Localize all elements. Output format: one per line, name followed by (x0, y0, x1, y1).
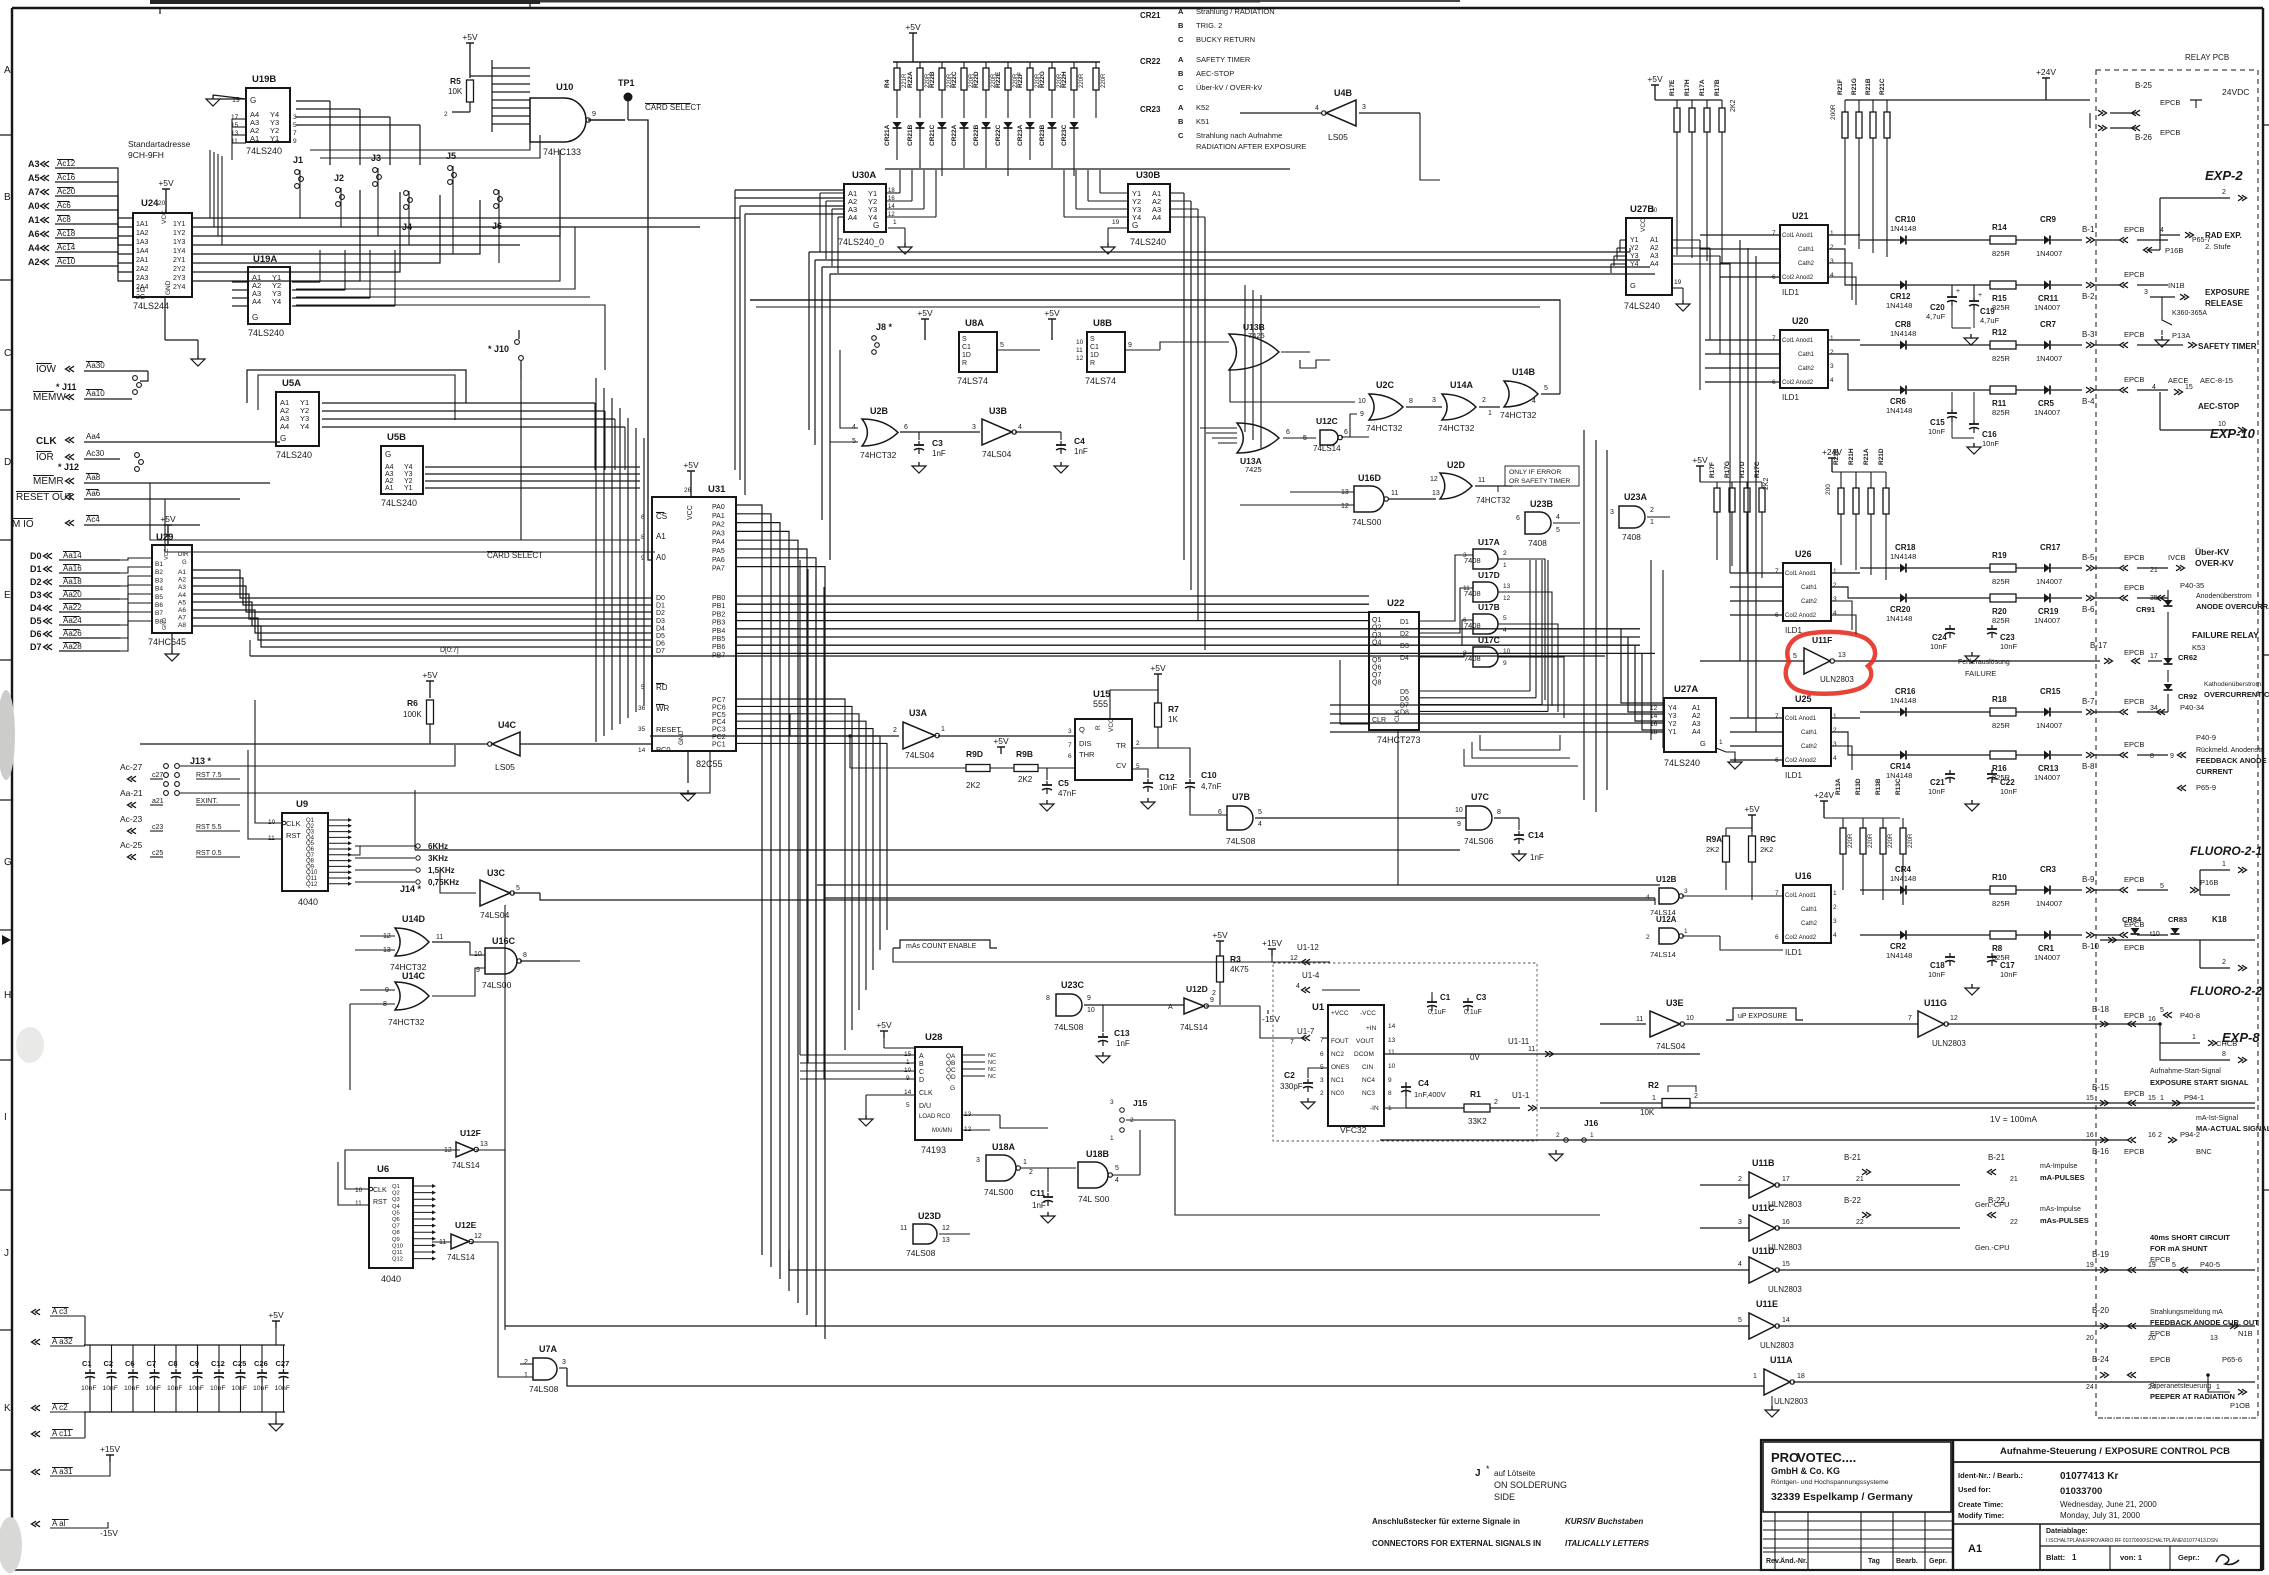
svg-text:+5V: +5V (462, 32, 478, 42)
svg-text:VOTEC....: VOTEC.... (1797, 1450, 1856, 1465)
svg-text:R15: R15 (1992, 294, 2007, 303)
LED CR23A (1026, 122, 1035, 128)
IC U30A 74LS240 (844, 184, 886, 232)
svg-text:B-22: B-22 (1844, 1196, 1861, 1205)
svg-text:U12A: U12A (1656, 915, 1677, 924)
wire U9 outputs (328, 819, 348, 821)
svg-text:4,7nF: 4,7nF (1201, 782, 1222, 791)
inverter U11D ULN2803 (1749, 1257, 1775, 1283)
svg-text:R7: R7 (1168, 704, 1179, 714)
wire U22 D outputs to U17 gates (1419, 555, 1473, 621)
capacitor C18 10nF (1949, 953, 1951, 957)
sheet border frame (12, 7, 2263, 9)
svg-text:K53: K53 (2192, 643, 2205, 652)
svg-text:10nF: 10nF (1930, 642, 1948, 651)
wire U14 inputs (360, 935, 395, 937)
NAND U18B 74LS00 (1078, 1162, 1108, 1188)
svg-text:2: 2 (1503, 550, 1507, 557)
svg-text:4: 4 (1738, 1261, 1742, 1268)
NAND U12B 74LS14 (1659, 888, 1679, 904)
svg-text:1nF,400V: 1nF,400V (1414, 1090, 1446, 1099)
svg-text:74LS14: 74LS14 (1180, 1023, 1208, 1032)
svg-text:2Y1: 2Y1 (173, 257, 186, 264)
svg-text:Y1: Y1 (1668, 729, 1677, 736)
svg-text:AEC-STOP: AEC-STOP (2198, 402, 2240, 411)
svg-text:2: 2 (1694, 1093, 1698, 1100)
wire U27B outputs drop to U21 (1699, 240, 1701, 390)
svg-text:ILD1: ILD1 (1782, 393, 1799, 402)
svg-text:G: G (280, 434, 286, 443)
IC U28 74193 (915, 1047, 962, 1140)
svg-text:VCC: VCC (1108, 718, 1115, 732)
capacitor C12 10nF (1132, 769, 1148, 778)
svg-text:P94-1: P94-1 (2184, 1093, 2204, 1102)
wire U5 loop top (247, 370, 466, 403)
diode CR2 1N4148 (1860, 934, 1900, 936)
svg-text:EXP-2: EXP-2 (2205, 168, 2243, 183)
svg-text:G: G (385, 450, 391, 459)
svg-text:B2: B2 (155, 569, 163, 576)
svg-text:+5V: +5V (993, 736, 1009, 746)
svg-text:Ac8: Ac8 (57, 215, 71, 224)
svg-text:2: 2 (1029, 1169, 1033, 1176)
svg-text:10nF: 10nF (124, 1385, 140, 1392)
ground below U29 (171, 650, 173, 654)
svg-text:3: 3 (1362, 104, 1366, 111)
svg-text:+15V: +15V (1262, 938, 1282, 948)
svg-text:C: C (919, 1069, 924, 1076)
svg-text:4: 4 (1646, 894, 1650, 901)
svg-text:1: 1 (1833, 568, 1837, 575)
AND U23D 74LS08 (913, 1224, 937, 1244)
diode CR7 1N4007 (2044, 341, 2050, 350)
svg-text:LS05: LS05 (495, 762, 515, 772)
svg-text:P16B: P16B (2200, 878, 2218, 887)
resistor R20 825R (1990, 594, 2016, 602)
LED CR23C (1070, 122, 1079, 128)
IC U19B 74LS240 (246, 88, 290, 142)
resistor R9D 2K2 (849, 736, 851, 768)
resistor R13D (1862, 818, 1864, 828)
svg-text:A: A (1178, 55, 1184, 64)
svg-text:Cath1: Cath1 (1801, 585, 1818, 591)
svg-text:B-15: B-15 (2092, 1083, 2109, 1092)
svg-text:EPCB: EPCB (2150, 1355, 2170, 1364)
LED CR23B (1048, 122, 1057, 128)
svg-text:74LS08: 74LS08 (1226, 836, 1256, 846)
svg-text:A7: A7 (178, 615, 186, 622)
svg-text:A: A (4, 65, 11, 76)
svg-text:3: 3 (1833, 596, 1837, 603)
svg-text:TP1: TP1 (618, 78, 635, 88)
capacitor C6 10nF (132, 1345, 134, 1368)
svg-text:Aa20: Aa20 (63, 590, 82, 599)
svg-text:1: 1 (1833, 890, 1837, 897)
svg-text:R9D: R9D (966, 749, 983, 759)
svg-text:Y4: Y4 (1630, 261, 1639, 268)
svg-text:D5: D5 (30, 616, 42, 626)
svg-text:6: 6 (904, 424, 908, 431)
diode CR1 1N4007 (2044, 931, 2050, 940)
svg-text:Aa30: Aa30 (86, 361, 105, 370)
svg-text:EXP-10: EXP-10 (2210, 426, 2256, 441)
resistor R17H (1691, 100, 1693, 108)
svg-text:EPCB: EPCB (2124, 553, 2144, 562)
svg-text:KURSIV Buchstaben: KURSIV Buchstaben (1565, 1517, 1643, 1526)
capacitor C16 10nF (1973, 420, 1975, 424)
svg-text:82C55: 82C55 (696, 759, 723, 769)
svg-text:U28: U28 (925, 1032, 942, 1043)
wire opto U21 inputs (1700, 234, 1780, 236)
svg-text:+VCC: +VCC (1331, 1010, 1349, 1017)
svg-text:A2: A2 (178, 577, 186, 584)
svg-text:RST: RST (286, 831, 301, 840)
svg-text:16: 16 (888, 196, 895, 202)
svg-text:I: I (4, 1112, 7, 1123)
svg-text:2: 2 (1650, 507, 1654, 514)
OR4 gate U13A 7425 (1237, 423, 1279, 453)
svg-text:U23B: U23B (1530, 499, 1554, 509)
svg-text:PC5: PC5 (712, 712, 726, 719)
svg-text:C7: C7 (147, 1359, 157, 1368)
svg-text:C4: C4 (1074, 436, 1085, 446)
svg-text:Q7: Q7 (1372, 672, 1381, 679)
svg-text:U31: U31 (708, 484, 726, 495)
svg-text:+: + (1956, 288, 1960, 295)
svg-text:Q3: Q3 (392, 1197, 400, 1203)
wire EXP-2 arrow (2160, 197, 2230, 199)
svg-text:6: 6 (1516, 515, 1520, 522)
svg-text:1N4148: 1N4148 (1886, 951, 1912, 960)
NAND gate U10 74HC133 (530, 98, 586, 142)
inverter U12D 74LS14 (1184, 998, 1204, 1014)
svg-text:1: 1 (1652, 1095, 1656, 1102)
svg-text:Q1: Q1 (392, 1184, 400, 1190)
IC U22 74HCT273 (1369, 612, 1419, 730)
svg-text:10: 10 (1076, 339, 1084, 346)
svg-text:1N4148: 1N4148 (1890, 224, 1916, 233)
LED CR22B (982, 122, 991, 128)
svg-text:1A2: 1A2 (136, 230, 149, 237)
svg-text:1nF: 1nF (1074, 447, 1088, 456)
svg-text:EPCB: EPCB (2124, 225, 2144, 234)
svg-text:74LS14: 74LS14 (452, 1161, 480, 1170)
svg-text:7: 7 (1290, 1039, 1294, 1046)
scan smudge left (0, 690, 15, 780)
svg-text:G: G (4, 857, 12, 868)
svg-text:Aufnahme-Start-Signal: Aufnahme-Start-Signal (2150, 1068, 2221, 1075)
inverter U11B ULN2803 (1749, 1172, 1775, 1198)
diode CR83 (2171, 928, 2180, 934)
wire U28 feed verticals (799, 560, 801, 1055)
svg-text:A4: A4 (252, 297, 261, 306)
svg-text:4,7uF: 4,7uF (1980, 316, 2000, 325)
svg-text:G: G (1630, 281, 1636, 290)
svg-text:74HCT32: 74HCT32 (860, 450, 897, 460)
svg-text:C24: C24 (1932, 633, 1947, 642)
svg-text:J15: J15 (1133, 1098, 1147, 1108)
svg-text:U11F: U11F (1812, 635, 1832, 645)
svg-text:CR1: CR1 (2038, 944, 2055, 953)
svg-text:PA3: PA3 (712, 530, 725, 537)
svg-text:Q4: Q4 (392, 1204, 401, 1210)
svg-text:10nF: 10nF (167, 1385, 183, 1392)
svg-text:PC3: PC3 (712, 727, 726, 734)
svg-text:FAILURE: FAILURE (1965, 669, 1996, 678)
svg-text:C3: C3 (932, 438, 943, 448)
svg-text:9: 9 (1360, 411, 1364, 418)
svg-text:PB0: PB0 (712, 595, 725, 602)
title block revision grid (1763, 1511, 1953, 1513)
svg-text:4: 4 (1503, 627, 1507, 634)
svg-text:4: 4 (2160, 227, 2164, 234)
svg-text:Cath2: Cath2 (1801, 921, 1818, 927)
svg-text:A4: A4 (1692, 729, 1701, 736)
svg-text:ULN2803: ULN2803 (1932, 1039, 1966, 1048)
diode CR5 1N4007 (2044, 386, 2050, 395)
svg-text:1A3: 1A3 (136, 239, 149, 246)
svg-text:C: C (1178, 131, 1184, 140)
svg-text:* J11: * J11 (56, 382, 77, 392)
inverter U3E 74LS04 (1650, 1011, 1680, 1037)
svg-text:A4: A4 (28, 243, 40, 253)
wire U27B outputs to right (1672, 239, 1700, 241)
svg-text:FOR mA SHUNT: FOR mA SHUNT (2150, 1244, 2208, 1253)
svg-text:R: R (962, 360, 967, 367)
svg-text:N1B: N1B (2238, 1329, 2253, 1338)
resistor R22E 220R (1007, 62, 1009, 68)
svg-text:1Y2: 1Y2 (173, 230, 186, 237)
svg-text:CARD SELECT: CARD SELECT (487, 551, 543, 560)
resistor R17F (1716, 482, 1718, 488)
svg-text:R2: R2 (1648, 1080, 1659, 1090)
svg-text:U2C: U2C (1376, 380, 1395, 390)
svg-text:B: B (1178, 117, 1184, 126)
svg-text:A: A (919, 1053, 924, 1060)
wire A-bus U24 left (110, 168, 133, 218)
svg-text:20: 20 (2086, 1335, 2094, 1342)
svg-text:Y1: Y1 (1630, 237, 1639, 244)
svg-text:U2B: U2B (870, 406, 889, 416)
svg-text:24: 24 (2086, 1384, 2094, 1391)
svg-text:D2: D2 (1400, 631, 1409, 638)
svg-text:EXPOSURE: EXPOSURE (2205, 288, 2250, 297)
svg-text:1: 1 (1830, 230, 1834, 237)
svg-text:10nF: 10nF (2000, 787, 2018, 796)
svg-text:U26: U26 (1795, 549, 1812, 559)
svg-text:9: 9 (1087, 995, 1091, 1002)
svg-text:74LS14: 74LS14 (1313, 444, 1341, 453)
svg-text:R8: R8 (1992, 944, 2003, 953)
svg-text:PA6: PA6 (712, 557, 725, 564)
svg-text:10: 10 (1388, 1063, 1396, 1070)
svg-text:7: 7 (1908, 1015, 1912, 1022)
resistor R10 825R (1990, 886, 2016, 894)
svg-text:R22D: R22D (973, 71, 980, 88)
inverter U3C 74LS04 (480, 880, 510, 906)
svg-text:R9B: R9B (1016, 749, 1033, 759)
svg-text:10nF: 10nF (1928, 970, 1946, 979)
optocoupler U16 ILD1 (1783, 885, 1831, 943)
IC U27A 74LS240 (1664, 698, 1716, 752)
svg-text:2: 2 (1830, 244, 1834, 251)
svg-text:0,1uF: 0,1uF (1428, 1009, 1446, 1016)
svg-text:U16C: U16C (492, 936, 516, 946)
resistor R9A 2K2 (1723, 836, 1730, 862)
svg-text:C12: C12 (211, 1359, 225, 1368)
svg-text:mA-Impulse: mA-Impulse (2040, 1163, 2077, 1170)
svg-text:PC1: PC1 (712, 741, 726, 748)
svg-text:CR91: CR91 (2136, 605, 2155, 614)
svg-text:CR22: CR22 (1140, 57, 1161, 66)
resistor R14 825R (1990, 236, 2016, 244)
svg-text:2Y4: 2Y4 (173, 284, 186, 291)
svg-text:74LS244: 74LS244 (133, 301, 169, 311)
svg-text:2K2: 2K2 (1730, 99, 1737, 112)
svg-text:DIR: DIR (178, 552, 189, 558)
diode CR14 1N4148 (1860, 754, 1900, 756)
svg-text:1,5KHz: 1,5KHz (428, 866, 455, 875)
svg-text:PA2: PA2 (712, 522, 725, 529)
svg-text:U14B: U14B (1512, 367, 1536, 377)
svg-text:B-4: B-4 (2082, 397, 2095, 406)
diode CR13 1N4007 (2044, 751, 2050, 760)
svg-text:D2: D2 (656, 610, 665, 617)
svg-text:Y4: Y4 (404, 464, 413, 471)
ground at U27B (1682, 300, 1684, 304)
resistor R17A (1706, 100, 1708, 108)
svg-text:Y3: Y3 (1668, 713, 1677, 720)
svg-text:10: 10 (355, 1187, 363, 1194)
svg-text:2K2: 2K2 (966, 781, 981, 790)
wire long mid horizontals (415, 849, 1460, 851)
svg-text:74LS240: 74LS240 (248, 328, 284, 338)
svg-text:+24V: +24V (1814, 790, 1834, 800)
svg-text:NC: NC (988, 1074, 996, 1080)
svg-text:C2: C2 (104, 1359, 114, 1368)
svg-text:15: 15 (2148, 1095, 2156, 1102)
svg-text:Col1 Anod1: Col1 Anod1 (1782, 233, 1814, 239)
inverter U11E ULN2803 (1749, 1313, 1775, 1339)
svg-text:1K: 1K (1168, 715, 1178, 724)
svg-text:P16B: P16B (2165, 246, 2183, 255)
svg-text:D1: D1 (656, 603, 665, 610)
callout ONLY IF ERROR OR SAFETY TIMER (1505, 466, 1579, 486)
svg-text:MEMR: MEMR (33, 476, 64, 487)
svg-text:R22A: R22A (907, 71, 914, 88)
svg-text:U30B: U30B (1136, 170, 1160, 181)
svg-text:Ac30: Ac30 (86, 449, 105, 458)
svg-text:PA4: PA4 (712, 539, 725, 546)
svg-text:K51: K51 (1196, 117, 1209, 126)
svg-text:R17A: R17A (1699, 79, 1706, 96)
svg-text:R21H: R21H (1848, 448, 1855, 465)
svg-text:NC: NC (988, 1060, 996, 1066)
svg-text:6: 6 (1068, 753, 1072, 760)
svg-text:U25: U25 (1795, 694, 1812, 704)
svg-text:74HCT32: 74HCT32 (1366, 423, 1403, 433)
svg-text:74HCT32: 74HCT32 (388, 1017, 425, 1027)
svg-text:8: 8 (1409, 398, 1413, 405)
LED CR21B (916, 122, 925, 128)
svg-text:825R: 825R (1992, 577, 2011, 586)
svg-text:12: 12 (1290, 955, 1298, 962)
svg-text:10K: 10K (1640, 1108, 1655, 1117)
NAND U12A 74LS14 (1659, 928, 1679, 944)
svg-text:U23A: U23A (1624, 492, 1648, 502)
svg-text:8: 8 (2222, 1051, 2226, 1058)
AND U23C 74LS08 (1056, 994, 1082, 1016)
svg-text:4040: 4040 (298, 897, 318, 907)
svg-text:33K2: 33K2 (1468, 1117, 1487, 1126)
svg-text:mAs COUNT ENABLE: mAs COUNT ENABLE (906, 943, 977, 950)
svg-text:CR21C: CR21C (929, 124, 936, 146)
svg-text:G: G (1700, 739, 1706, 748)
svg-text:CR4: CR4 (1895, 865, 1912, 874)
IC U5A 74LS240 (276, 392, 319, 446)
svg-text:Aa16: Aa16 (63, 564, 82, 573)
svg-text:Ac20: Ac20 (57, 187, 76, 196)
svg-text:U18B: U18B (1086, 1149, 1110, 1159)
inverter U4B LS05 (1326, 100, 1356, 126)
svg-text:C23: C23 (2000, 633, 2015, 642)
jumper J6 (494, 190, 499, 195)
svg-text:J6: J6 (492, 221, 502, 231)
ground at U30A (904, 243, 906, 247)
svg-text:5: 5 (1793, 653, 1797, 660)
svg-text:+5V: +5V (268, 1310, 284, 1320)
jumper J5 (448, 166, 453, 171)
svg-text:13: 13 (2210, 1335, 2218, 1342)
svg-text:D: D (919, 1077, 924, 1084)
optocoupler U21 ILD1 (1780, 225, 1828, 283)
capacitor C25 10nF (240, 1345, 242, 1368)
svg-text:9CH-9FH: 9CH-9FH (128, 150, 164, 160)
svg-text:D0: D0 (30, 551, 42, 561)
svg-text:Ac4: Ac4 (86, 515, 100, 524)
svg-text:U12D: U12D (1186, 984, 1208, 994)
capacitor C12 10nF (218, 1345, 220, 1368)
svg-text:EPCB: EPCB (2124, 943, 2144, 952)
svg-text:Q7: Q7 (392, 1224, 400, 1230)
svg-text:R17E: R17E (1669, 79, 1676, 96)
svg-text:PC0: PC0 (656, 745, 671, 754)
svg-text:7408: 7408 (1528, 538, 1547, 548)
svg-text:Ac12: Ac12 (57, 159, 76, 168)
svg-text:CR15: CR15 (2040, 687, 2061, 696)
svg-text:Q12: Q12 (392, 1257, 403, 1263)
svg-text:M IO: M IO (12, 519, 34, 530)
svg-text:R4: R4 (884, 79, 891, 88)
svg-text:4: 4 (1296, 983, 1300, 990)
svg-text:11: 11 (355, 1200, 362, 1207)
svg-text:6: 6 (1320, 1051, 1324, 1058)
svg-text:DIS: DIS (1079, 739, 1092, 748)
svg-text:C1: C1 (82, 1359, 92, 1368)
svg-text:1N4007: 1N4007 (2036, 249, 2062, 258)
svg-text:A3: A3 (1692, 721, 1701, 728)
svg-text:2K2: 2K2 (1763, 477, 1770, 490)
svg-text:8: 8 (523, 952, 527, 959)
svg-text:Cath2: Cath2 (1801, 599, 1818, 605)
svg-text:200: 200 (1825, 484, 1832, 495)
svg-text:Y2: Y2 (404, 478, 413, 485)
svg-text:C22: C22 (2000, 778, 2015, 787)
OR gate U2D 74HCT32 (1440, 473, 1472, 499)
svg-text:825R: 825R (1992, 408, 2011, 417)
capacitor C9 10nF (197, 1345, 199, 1368)
wire U19B input lines (232, 118, 246, 120)
